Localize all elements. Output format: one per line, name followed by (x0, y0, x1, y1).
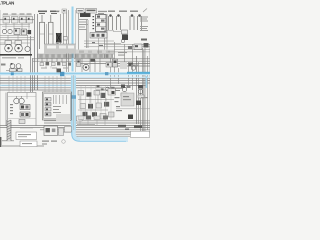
hose valve node (dark blue, center) (60, 72, 64, 76)
gauge box right of V6 (64, 37, 68, 41)
label above cylinder C2 (50, 11, 59, 15)
vertical wire risers (center) (42, 10, 100, 72)
text label group (x95 row) (98, 11, 107, 14)
hose fitting node (dark blue dot left) (11, 72, 14, 75)
wire stubs to pumps (0, 35, 28, 46)
wire stubs in cluster (78, 95, 114, 110)
hose highlighted: dark segment right (127, 72, 150, 74)
gauge pair under hose (x107) (106, 87, 110, 91)
note text block 2 (top right) (140, 26, 148, 31)
component grid row 3 (77, 112, 115, 121)
pin column left of U1 (93, 16, 95, 29)
dark valve on right riser (136, 101, 141, 106)
wire stubs valve row to gauges (0, 23, 30, 30)
node: suction manifold (dark line under pumps) (0, 54, 32, 56)
pilot valves inside box (stacked) (45, 98, 51, 117)
pencil mark (top right) (143, 9, 147, 13)
dark marks on bottom band right (118, 125, 142, 128)
valve cluster (right under hose, x122) (121, 85, 131, 97)
small box in aux box bottom (19, 120, 25, 124)
small text above tank box (20, 127, 33, 128)
wire (right horizontal y109) (116, 108, 150, 110)
background sheet (0, 0, 150, 150)
hose junction (steel blue dash) (105, 72, 108, 75)
manifold block (light grey, center top of bus) (44, 44, 76, 54)
text marks (bottom center) (42, 141, 57, 145)
cylinder C6 (138, 16, 142, 30)
component row under terminal strip (40, 62, 71, 69)
cylinder C3 (right group) (109, 16, 113, 30)
component cluster at x78 under strip (77, 60, 81, 67)
control box housing (big box, center bottom) (43, 92, 72, 120)
small marks right column (115, 97, 123, 111)
part number text (right) (141, 39, 147, 41)
hose elbow (bottom corner, light blue) (73, 130, 128, 140)
wire (left connecting lines) (0, 35, 34, 43)
note text block 1 (top right) (140, 17, 148, 22)
note text (right mid) (118, 52, 127, 56)
label boxes row (top center) (77, 9, 97, 14)
drawing frame right edge (148, 44, 150, 136)
solenoid valves Y1 Y2 (second row with gauges) (2, 27, 31, 35)
hose tint on lower bus (0, 84, 76, 86)
left edge tank line (0, 137, 1, 147)
dark mark (x90 under strip) (91, 59, 96, 62)
filter block (light grey, right) (121, 93, 134, 106)
hose highlighted: vertical return line lower part (wider) (71, 75, 76, 131)
wire (horizontal links under U1) (84, 31, 150, 54)
wire bus (bottom distribution lines) (0, 121, 150, 146)
connector mark (top, x62) (56, 9, 67, 13)
valve cluster (far right under hose, x140) (138, 85, 144, 98)
pump P1 (circle symbol) (5, 41, 13, 53)
label marks above pilot valve row (3, 13, 32, 14)
legend box (bottom left lower) (20, 141, 37, 147)
valve rect 1 in aux box (20, 105, 30, 110)
dark valve lower right (128, 115, 133, 120)
piston lines in cylinders (40, 24, 77, 47)
pump P2 (circle symbol) (15, 41, 23, 53)
hose stub (right, light blue) (146, 76, 148, 88)
cylinder C1 (boom, mid-left) (40, 15, 45, 49)
column wires in cluster (81, 86, 111, 120)
block (light grey right mid) (120, 62, 127, 69)
wire bus (lower horizontal lines) (0, 78, 150, 90)
small marks under U1 (92, 42, 103, 46)
label text under pumps (2, 57, 16, 58)
valve row V1-V4 (top left pilot valves) (0, 15, 34, 23)
drawing frame left edge (0, 10, 2, 146)
manifold block right half (lighter) (76, 50, 114, 55)
component (right mid small dark cluster) (113, 59, 118, 67)
label above cylinder C1 (38, 11, 47, 15)
valve section row under U1 (90, 33, 107, 39)
component grid row 2 (80, 102, 109, 109)
valve rect 2 in aux box (20, 112, 30, 117)
gauge G1 (twin circles in aux box) (14, 96, 25, 104)
junction cluster (top right of bus) (128, 43, 149, 50)
label 14 (bottom band right) (125, 129, 129, 130)
wire drops into boxes (y76-92) (9, 76, 65, 92)
box outline (bottom right white box) (131, 131, 150, 137)
relay block (dark, top center) (80, 12, 91, 17)
arrows inside box (54, 95, 67, 104)
component grid (center right cluster rows) (78, 89, 116, 99)
control valve block U1 (tall block with sections) (96, 15, 107, 32)
hose highlighted: vertical return line upper part (light blue) (72, 7, 76, 73)
connector cluster (bottom, x76-114 above band) (78, 116, 108, 126)
hose bottom run (light blue) (80, 138, 128, 140)
component cluster at x108 (right of row) (106, 63, 112, 68)
label text (right cluster top) (115, 88, 123, 92)
pump P3 (small circle) (25, 46, 30, 51)
junction marks under hose (x96-104) (97, 85, 104, 91)
text right of block (131, 65, 138, 66)
text dash right (141, 97, 148, 98)
marks left inside aux box (10, 104, 13, 114)
cylinder C4 (117, 16, 121, 30)
wire (links to right cylinders) (104, 32, 121, 44)
hatch column (left edge, pump suction strainer) (7, 120, 11, 141)
valve V6 (dark crossover valve center) (56, 33, 62, 47)
valve V7 (left of center bus, small dark) (57, 69, 62, 73)
light block inside box bottom (56, 114, 70, 121)
small labels inside box (53, 106, 61, 113)
valve V8 (between right cylinders) (121, 30, 128, 43)
vertical wire risers (left bus pair) (31, 14, 38, 92)
svg-text:.TPLAN: .TPLAN (0, 0, 14, 5)
cylinder C2 (stick) (49, 15, 54, 49)
terminal strip (zipper ticks row) (38, 54, 112, 58)
auxiliary box (left block with gauges) (6, 93, 36, 127)
wire bus (upper horizontal lines) (33, 59, 150, 66)
vertical wire risers (right) (105, 14, 148, 133)
pump unit box (bottom center-left) (44, 126, 58, 136)
tank label box (bottom left) (16, 132, 37, 140)
hose junction on vertical (steel blue) (71, 95, 76, 99)
valve cluster (x128-136 above hose) (129, 63, 136, 71)
text rows under relay block (79, 19, 88, 30)
small boxes (bottom center) (59, 127, 72, 144)
text marks above right cylinders (108, 11, 138, 12)
valve group V5 (left bank above main hose) (1, 63, 22, 72)
marks in filter block (123, 96, 129, 97)
cylinder C5 (130, 16, 134, 30)
gauge circle (x86 above hose) (83, 64, 89, 70)
hose highlighted: main pressure line (horizontal, light blue) (0, 72, 150, 78)
